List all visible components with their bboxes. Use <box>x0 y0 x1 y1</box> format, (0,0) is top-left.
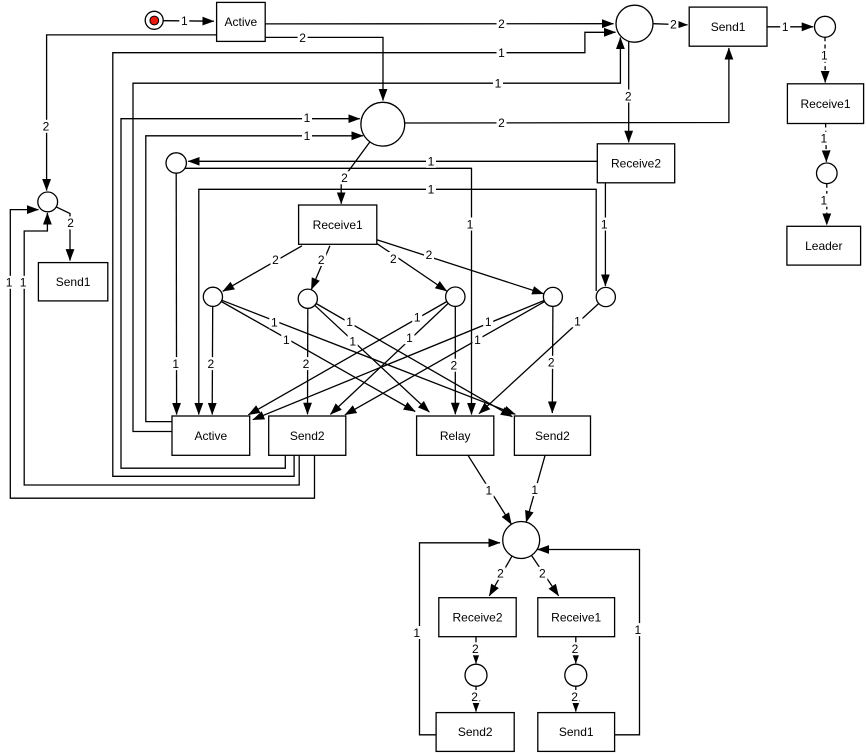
node I <box>298 289 317 308</box>
node D <box>815 16 836 37</box>
node G <box>166 153 186 173</box>
svg-text:1: 1 <box>495 77 502 91</box>
wire node H to Send2b label 1 <box>222 300 515 414</box>
wire node I to Relay label 1 <box>315 305 430 412</box>
svg-text:Leader: Leader <box>805 239 842 253</box>
wire node I to Send2b label 1 <box>316 304 512 417</box>
wire node O to Send1bb label 2 <box>575 686 577 711</box>
svg-text:1: 1 <box>428 155 435 169</box>
wire Active to node F label 2 <box>47 35 217 191</box>
wire node H to Active2 label 2 <box>211 307 214 415</box>
svg-text:2: 2 <box>272 253 279 267</box>
svg-text:1: 1 <box>474 333 481 347</box>
svg-text:1: 1 <box>349 334 356 348</box>
start marker <box>145 11 163 29</box>
svg-text:1: 1 <box>782 20 789 34</box>
svg-text:2: 2 <box>498 116 505 130</box>
svg-text:1: 1 <box>467 217 474 231</box>
wire Active2 to node C label 1 <box>146 136 363 422</box>
wire node J to Relay label 2 <box>454 307 456 415</box>
box Active top <box>217 2 266 41</box>
svg-text:1: 1 <box>6 276 13 290</box>
svg-text:2: 2 <box>207 357 214 371</box>
box Receive2 bottom <box>439 598 516 637</box>
svg-text:1: 1 <box>413 626 420 640</box>
svg-text:Receive1: Receive1 <box>313 218 363 232</box>
svg-text:1: 1 <box>428 183 435 197</box>
node N <box>465 664 487 686</box>
wire node K to Active2 label 1 <box>253 301 544 420</box>
svg-text:2: 2 <box>548 356 555 370</box>
wire Relay to node M label 1 <box>468 455 511 524</box>
svg-text:1: 1 <box>485 484 492 498</box>
svg-text:2: 2 <box>539 567 546 581</box>
svg-text:1: 1 <box>271 315 278 329</box>
svg-text:1: 1 <box>304 111 311 125</box>
svg-text:1: 1 <box>20 276 27 290</box>
box Receive1 mid <box>299 205 377 244</box>
svg-text:1: 1 <box>406 331 413 345</box>
wire Send1 to node D label 1 <box>767 26 813 28</box>
node C <box>361 102 405 146</box>
wire Send2 to node B label 1 <box>113 32 616 476</box>
svg-text:2: 2 <box>670 18 677 32</box>
box Receive1 bottom <box>538 598 615 637</box>
svg-text:2: 2 <box>471 690 478 704</box>
svg-text:2: 2 <box>341 171 348 185</box>
svg-text:2: 2 <box>303 357 310 371</box>
svg-text:Active: Active <box>194 429 227 443</box>
box Leader <box>787 226 861 265</box>
svg-text:1: 1 <box>304 129 311 143</box>
svg-text:1: 1 <box>574 314 581 328</box>
wire Receive1b to node O label 2 <box>575 637 577 663</box>
wire Send2 to node C label 1 <box>121 119 360 469</box>
wire start to Active <box>164 20 214 23</box>
wire node K to Send2 label 1 <box>345 302 545 415</box>
node M <box>503 522 540 559</box>
box Send2 bottom <box>436 713 514 752</box>
node K <box>543 287 562 306</box>
svg-text:2: 2 <box>472 642 479 656</box>
wire node N to Send2bb label 2 <box>475 686 477 711</box>
svg-text:2: 2 <box>299 31 306 45</box>
wire Active to node B label 2 <box>265 23 613 25</box>
box Receive2 mid <box>597 144 674 183</box>
svg-text:1: 1 <box>498 46 505 60</box>
svg-text:1: 1 <box>821 49 828 63</box>
box Active bottom <box>172 416 250 455</box>
wire node G to Relay label 1 <box>185 168 472 414</box>
svg-text:2: 2 <box>572 642 579 656</box>
svg-text:1: 1 <box>181 14 188 28</box>
wire node H to Relay label 1 <box>221 302 415 412</box>
svg-text:Receive2: Receive2 <box>452 610 502 624</box>
svg-text:2: 2 <box>497 567 504 581</box>
svg-text:1: 1 <box>601 217 608 231</box>
wire node L to Relay label 1 <box>479 304 599 414</box>
svg-text:Receive2: Receive2 <box>611 157 661 171</box>
wire Receive2 to node G label 1 <box>188 160 597 162</box>
box Send1 top right <box>689 7 767 46</box>
svg-text:1: 1 <box>414 311 421 325</box>
box Send1 left <box>38 263 107 301</box>
node J <box>446 287 465 306</box>
svg-text:1: 1 <box>346 315 353 329</box>
wire node G to Active2 label 1 <box>175 173 177 414</box>
wire node I to Send2 label 2 <box>307 308 309 414</box>
wire node M to Receive2b label 2 <box>489 556 512 596</box>
wire Receive1m to node J label 2 <box>377 244 447 292</box>
wire Send2 to node F left label 1 <box>10 210 314 499</box>
wire Receive1r to node E dashed label 1 <box>825 124 828 162</box>
box Send2 first <box>269 416 346 455</box>
node L <box>596 287 615 306</box>
wire node C to Send1 label 2 <box>405 48 729 123</box>
node H <box>203 287 222 306</box>
wire node E to Leader dashed label 1 <box>826 184 828 225</box>
wire node J to Active2 label 1 <box>248 302 447 415</box>
box Send2 second <box>514 416 590 455</box>
wire Receive2b to node N label 2 <box>475 637 477 663</box>
svg-text:1: 1 <box>820 194 827 208</box>
box Receive1 right <box>787 84 863 124</box>
node E <box>817 163 838 184</box>
wire Send2b to node M label 1 <box>526 455 545 522</box>
svg-text:2: 2 <box>498 17 505 31</box>
svg-text:2: 2 <box>571 690 578 704</box>
wire node K to Send2b label 2 <box>551 307 554 414</box>
svg-text:2: 2 <box>390 252 397 266</box>
node O <box>565 664 587 686</box>
svg-text:Receive1: Receive1 <box>551 610 601 624</box>
wire node D to Receive1r dashed label 1 <box>824 37 826 82</box>
wire Send1bb to node M label 1 <box>538 550 640 735</box>
svg-text:Send1: Send1 <box>711 20 746 34</box>
svg-text:1: 1 <box>531 483 538 497</box>
svg-text:Send2: Send2 <box>458 725 493 739</box>
svg-text:Relay: Relay <box>440 429 471 443</box>
svg-text:2: 2 <box>43 120 50 134</box>
svg-text:Active: Active <box>225 15 258 29</box>
wire Active to node C label 2 <box>265 37 383 100</box>
node B <box>616 5 653 42</box>
wire node J to Send2 label 1 <box>330 303 448 414</box>
wire Send2bb to node M label 1 <box>420 543 501 735</box>
node F <box>38 192 58 212</box>
svg-text:Send1: Send1 <box>559 725 594 739</box>
svg-text:2: 2 <box>318 253 325 267</box>
box Send1 bottom <box>538 713 615 752</box>
svg-text:Send2: Send2 <box>290 429 325 443</box>
wire Receive1m to node H label 2 <box>223 246 302 291</box>
svg-text:1: 1 <box>172 357 179 371</box>
svg-text:Receive1: Receive1 <box>800 97 850 111</box>
wire node B to Receive2 label 2 <box>628 41 630 142</box>
wire node C to Receive1m label 2 <box>341 142 370 204</box>
svg-text:1: 1 <box>485 315 492 329</box>
svg-text:2: 2 <box>625 89 632 103</box>
wire node L to Active2 label 1 <box>199 189 596 414</box>
wire Receive2 to node L label 1 <box>604 183 606 286</box>
wire Receive1m to node I label 2 <box>311 246 330 290</box>
wire node F to Send1L label 2 <box>56 207 70 261</box>
wire node B to Send1 label 2 <box>653 24 688 25</box>
wire Receive1m to node K label 2 <box>377 240 544 294</box>
svg-text:2: 2 <box>426 248 433 262</box>
svg-text:Send2: Send2 <box>535 429 570 443</box>
svg-text:1: 1 <box>820 132 827 146</box>
wire Active2 to node B label 1 <box>133 38 620 432</box>
svg-text:Send1: Send1 <box>56 275 91 289</box>
wire node M to Receive1b label 2 <box>532 555 559 595</box>
wire Send2 to node F bottom label 1 <box>24 213 299 485</box>
box Relay <box>417 416 494 455</box>
svg-text:2: 2 <box>451 359 458 373</box>
svg-text:2: 2 <box>67 216 74 230</box>
svg-text:1: 1 <box>635 623 642 637</box>
svg-text:1: 1 <box>283 333 290 347</box>
